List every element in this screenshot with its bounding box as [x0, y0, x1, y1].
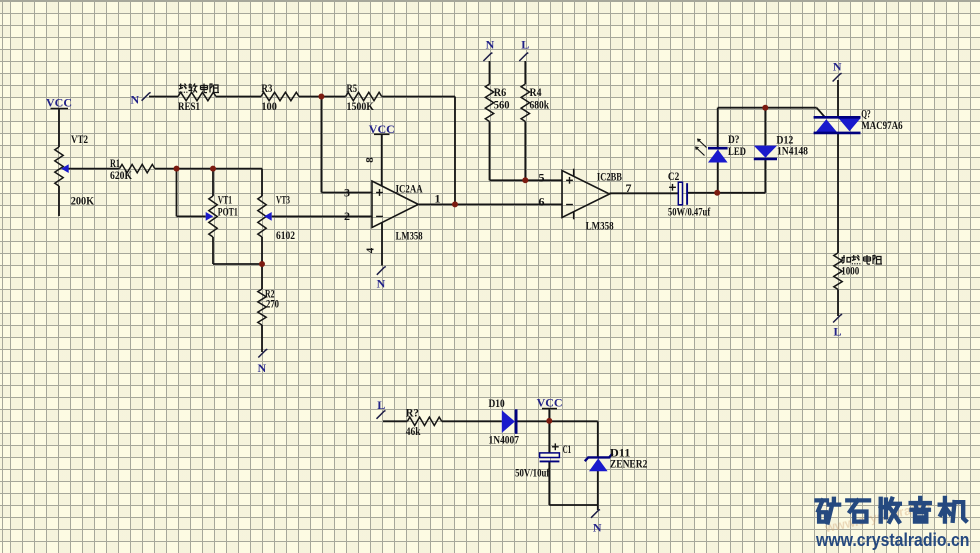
svg-text:ZENER2: ZENER2: [610, 456, 648, 470]
svg-text:6102: 6102: [276, 228, 295, 242]
svg-text:50W/0.47uf: 50W/0.47uf: [668, 205, 711, 219]
svg-text:200K: 200K: [71, 194, 95, 208]
svg-text:C1: C1: [563, 442, 572, 456]
svg-text:D10: D10: [489, 396, 505, 410]
svg-text:3: 3: [344, 185, 350, 199]
svg-text:4: 4: [365, 247, 377, 253]
svg-text:N: N: [593, 521, 602, 535]
svg-text:270: 270: [266, 297, 279, 311]
svg-text:RES1: RES1: [178, 99, 200, 113]
svg-text:N: N: [130, 93, 139, 107]
svg-text:VCC: VCC: [46, 96, 72, 110]
svg-text:R5: R5: [347, 81, 358, 95]
svg-text:560: 560: [494, 98, 510, 112]
svg-text:VCC: VCC: [369, 122, 395, 136]
svg-text:5: 5: [539, 170, 545, 184]
svg-text:1000: 1000: [841, 264, 859, 278]
svg-text:620K: 620K: [110, 168, 133, 182]
svg-text:LM358: LM358: [586, 219, 614, 233]
svg-text:1N4148: 1N4148: [777, 144, 808, 158]
svg-text:L: L: [521, 38, 529, 52]
svg-text:IC2AA: IC2AA: [396, 181, 423, 195]
svg-text:L: L: [833, 325, 841, 339]
svg-text:2: 2: [344, 209, 350, 223]
svg-text:7: 7: [626, 181, 632, 195]
svg-text:C2: C2: [668, 169, 679, 183]
svg-text:VCC: VCC: [537, 396, 563, 410]
svg-text:IC2BB: IC2BB: [597, 169, 622, 183]
svg-text:POT1: POT1: [218, 205, 238, 219]
svg-text:50V/10uf: 50V/10uf: [515, 466, 550, 480]
svg-text:VT2: VT2: [71, 132, 88, 146]
svg-text:L: L: [377, 398, 385, 412]
svg-text:N: N: [377, 277, 386, 291]
svg-text:N: N: [833, 60, 842, 74]
svg-text:1: 1: [435, 192, 441, 206]
svg-text:N: N: [486, 38, 495, 52]
svg-text:1N4007: 1N4007: [489, 432, 520, 446]
svg-text:46k: 46k: [406, 424, 421, 438]
svg-text:6: 6: [539, 194, 545, 208]
svg-text:680k: 680k: [530, 98, 550, 112]
svg-text:LM358: LM358: [396, 228, 423, 242]
svg-text:MAC97A6: MAC97A6: [861, 118, 903, 132]
svg-text:LED: LED: [728, 144, 746, 158]
svg-text:www.crystalradio.cn: www.crystalradio.cn: [815, 529, 969, 550]
svg-text:1500K: 1500K: [347, 99, 375, 113]
svg-text:VT3: VT3: [276, 193, 290, 207]
svg-text:N: N: [257, 361, 266, 375]
svg-text:R?: R?: [406, 406, 419, 420]
svg-text:R3: R3: [261, 81, 272, 95]
svg-text:8: 8: [364, 157, 376, 163]
svg-text:100: 100: [261, 99, 277, 113]
